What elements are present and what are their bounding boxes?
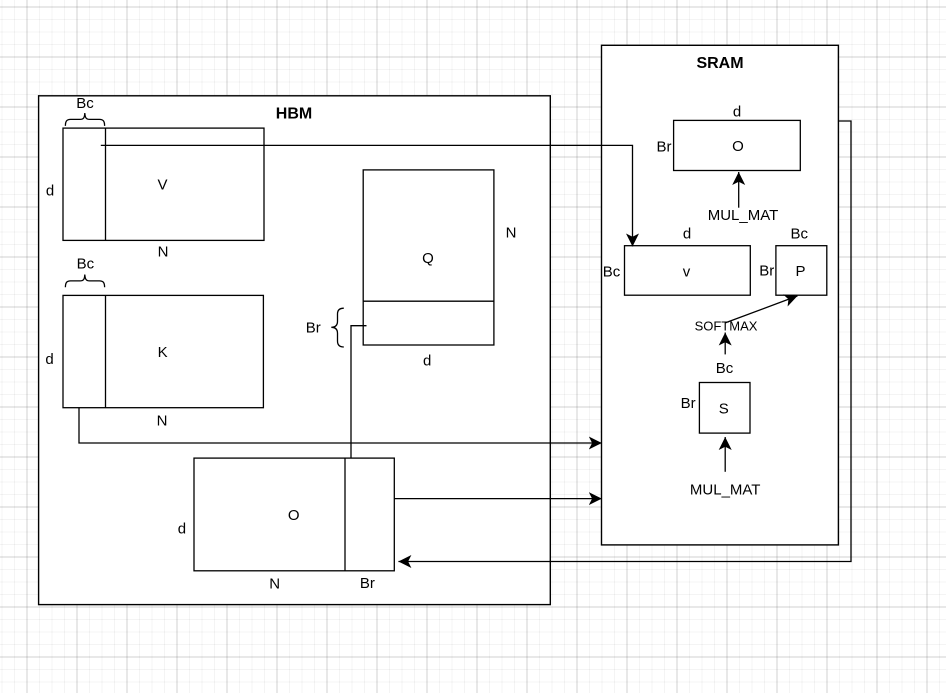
label Bc above K strip <box>65 255 104 287</box>
svg-text:d: d <box>683 225 691 242</box>
svg-text:Bc: Bc <box>716 360 734 377</box>
svg-text:d: d <box>423 352 431 369</box>
matrix O (HBM) <box>194 458 394 571</box>
label Br left of Q row strip <box>306 308 344 347</box>
svg-text:v: v <box>683 263 691 280</box>
svg-text:d: d <box>46 183 54 200</box>
svg-text:Br: Br <box>681 395 696 412</box>
matrix v <box>625 246 751 296</box>
SRAM container box <box>602 45 839 545</box>
matrix V <box>63 128 264 240</box>
svg-text:N: N <box>506 225 517 242</box>
wire K to SRAM <box>79 408 602 443</box>
svg-text:N: N <box>157 413 168 430</box>
svg-text:O: O <box>288 507 300 524</box>
svg-text:MUL_MAT: MUL_MAT <box>708 207 779 224</box>
svg-text:Bc: Bc <box>603 263 621 280</box>
arrow MUL_MAT to S <box>724 437 726 472</box>
svg-text:SRAM: SRAM <box>696 55 743 72</box>
matrix O (SRAM) <box>674 120 801 170</box>
svg-text:d: d <box>45 351 53 368</box>
arrow SOFTMAX to P <box>725 296 797 323</box>
svg-text:N: N <box>269 575 280 592</box>
svg-text:d: d <box>733 103 741 120</box>
arrow MUL_MAT to O (SRAM) <box>738 172 740 208</box>
wire SRAM O writeback to O (HBM) <box>398 121 851 562</box>
wire O (HBM) to SRAM <box>394 498 601 500</box>
matrix P <box>776 246 827 296</box>
matrix K <box>63 295 263 407</box>
svg-text:S: S <box>719 400 729 417</box>
HBM container box <box>39 96 551 605</box>
svg-text:N: N <box>158 244 169 261</box>
wire V to v <box>101 145 633 246</box>
svg-text:Br: Br <box>759 263 774 280</box>
svg-text:Bc: Bc <box>791 225 809 242</box>
svg-text:P: P <box>795 263 805 280</box>
svg-text:Bc: Bc <box>77 255 95 272</box>
label Bc above V strip <box>65 95 104 126</box>
svg-text:Bc: Bc <box>76 95 94 112</box>
matrix Q <box>363 170 494 345</box>
wire Q row strip down to O (HBM) <box>351 326 367 458</box>
svg-text:Br: Br <box>360 575 375 592</box>
svg-text:Br: Br <box>657 138 672 155</box>
svg-text:K: K <box>158 344 168 361</box>
svg-text:HBM: HBM <box>276 105 312 122</box>
svg-text:SOFTMAX: SOFTMAX <box>695 318 758 333</box>
svg-text:V: V <box>157 176 167 193</box>
svg-text:d: d <box>178 520 186 537</box>
matrix S <box>699 383 750 434</box>
arrow S to SOFTMAX <box>724 333 726 355</box>
svg-text:Br: Br <box>306 320 321 337</box>
svg-text:MUL_MAT: MUL_MAT <box>690 481 761 498</box>
svg-text:O: O <box>732 138 744 155</box>
svg-text:Q: Q <box>422 250 434 267</box>
